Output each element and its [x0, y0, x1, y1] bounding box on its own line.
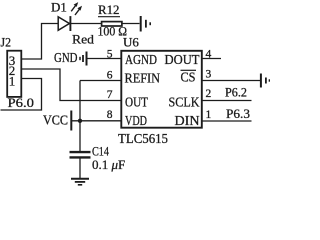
svg-text:R12: R12 — [98, 2, 120, 17]
svg-text:J2: J2 — [1, 35, 12, 50]
svg-text:GND: GND — [54, 50, 78, 65]
svg-text:REFIN: REFIN — [125, 71, 161, 86]
svg-text:AGND: AGND — [125, 53, 157, 68]
svg-text:1: 1 — [9, 73, 16, 88]
svg-text:5: 5 — [107, 48, 113, 60]
svg-text:DOUT: DOUT — [165, 53, 200, 68]
svg-text:7: 7 — [107, 89, 113, 101]
svg-text:OUT: OUT — [125, 96, 148, 111]
svg-text:P6.2: P6.2 — [225, 85, 247, 100]
svg-text:D1: D1 — [51, 0, 67, 14]
svg-text:0.1 μF: 0.1 μF — [92, 157, 125, 172]
svg-text:3: 3 — [206, 69, 212, 81]
svg-text:VCC: VCC — [43, 113, 68, 128]
svg-text:1: 1 — [206, 109, 212, 121]
svg-text:4: 4 — [206, 49, 212, 61]
svg-text:VDD: VDD — [125, 114, 147, 129]
svg-text:6: 6 — [107, 70, 113, 82]
svg-text:8: 8 — [107, 109, 113, 121]
svg-text:P6.3: P6.3 — [226, 106, 250, 121]
svg-text:SCLK: SCLK — [169, 96, 200, 111]
svg-text:P6.0: P6.0 — [8, 95, 35, 110]
svg-text:2: 2 — [206, 88, 212, 100]
svg-text:U6: U6 — [123, 35, 139, 50]
svg-text:Red: Red — [72, 31, 95, 46]
svg-text:DIN: DIN — [175, 114, 200, 129]
svg-text:TLC5615: TLC5615 — [118, 132, 168, 147]
svg-text:CS: CS — [181, 71, 196, 86]
